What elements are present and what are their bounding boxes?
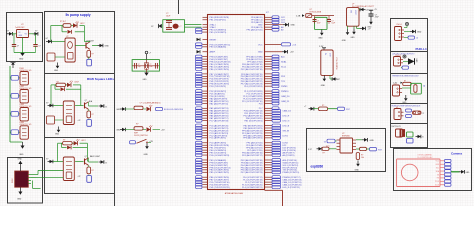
svg-text:GND: GND <box>105 46 110 48</box>
photo chain bus wire <box>9 66 11 142</box>
svg-text:GND: GND <box>17 199 22 201</box>
wire to MCU XTAL2 <box>185 26 202 28</box>
transistor Q1 pump <box>86 40 94 49</box>
ground 1.3V comp <box>321 75 326 86</box>
label LDR PGB4 <box>19 122 32 126</box>
capacitor C5 <box>313 20 321 25</box>
wire motor B <box>31 176 44 178</box>
svg-text:+3?: +3? <box>368 28 371 30</box>
gate box (RGB box) <box>47 116 64 124</box>
svg-text:H?: H? <box>396 107 398 109</box>
svg-text:RGB Square LEDs: RGB Square LEDs <box>87 77 114 81</box>
net flag +3 output <box>360 27 371 31</box>
esp IC U5 <box>337 133 357 153</box>
svg-text:GND: GND <box>54 70 59 72</box>
decoupling cap C4b <box>166 25 172 29</box>
wire chain gnd <box>10 141 23 143</box>
camera gnd diode <box>459 170 470 174</box>
mosfet gate box pump <box>47 53 55 61</box>
title esp8266 <box>311 164 324 168</box>
wire drive (RGB box) <box>53 105 63 107</box>
net oval photo 1 <box>10 76 20 81</box>
ground (RGB box) <box>55 127 60 136</box>
wire base (RGB box) <box>75 105 83 107</box>
svg-text:C? 1-CLAIRE-ARGB(LV): C? 1-CLAIRE-ARGB(LV) <box>140 102 161 105</box>
ground 1117 left <box>342 29 350 42</box>
svg-text:GND: GND <box>342 40 347 42</box>
wire driver to transistor <box>75 45 86 47</box>
wire LED loop (backlight box) <box>58 143 88 161</box>
svg-text:PL0 (ICP4/PCINT4): PL0 (ICP4/PCINT4) <box>244 86 263 88</box>
wire to MCU XTAL1 <box>185 24 202 26</box>
svg-text:C?: C? <box>17 46 19 48</box>
capacitor C1 <box>12 45 19 53</box>
crystal green box <box>132 60 159 72</box>
power +3 tap (RGB box) <box>78 120 81 122</box>
wire vout <box>29 33 35 35</box>
ground arrow down <box>17 187 22 200</box>
power flag (sensor box1) <box>404 22 409 27</box>
svg-text:PF4 (ADC4/TCK): PF4 (ADC4/TCK) <box>246 29 262 32</box>
MCU part number label <box>225 192 244 195</box>
crystal cap Cb <box>155 63 157 69</box>
connector DHT (sensor box5) <box>396 129 406 138</box>
resistor R1 pump <box>60 21 71 27</box>
regulator U1 labels <box>15 24 25 29</box>
svg-text:+3?: +3? <box>78 176 81 178</box>
svg-text:7x05DCWV: 7x05DCWV <box>15 27 25 29</box>
svg-text:GND: GND <box>19 154 24 156</box>
wire pump in <box>52 41 66 43</box>
gnd diode (sensor box1) <box>404 30 422 34</box>
net oval (sensor box1) <box>404 36 418 40</box>
blue vertical text 3 (sensor box3) <box>423 85 426 87</box>
svg-text:C?: C? <box>332 20 334 22</box>
net flag pullup <box>304 106 314 111</box>
LED status1 <box>147 105 153 111</box>
diode output pump <box>98 44 110 48</box>
net flag VIN <box>7 31 13 36</box>
label door switch <box>134 132 148 137</box>
svg-text:LED_R (PCINT21): LED_R (PCINT21) <box>283 187 301 189</box>
LED diode (backlight box) <box>74 139 86 145</box>
svg-text:GND: GND <box>55 134 60 136</box>
power flag 2 (sensor box2) <box>403 55 406 58</box>
wire motor A <box>31 171 38 175</box>
svg-text:+?: +? <box>304 106 306 108</box>
wire output cap <box>35 34 37 45</box>
capacitor C6 <box>327 20 335 25</box>
svg-text:HS: HS <box>437 178 439 180</box>
ground crystal <box>143 73 149 82</box>
section frame: motor driver box <box>8 158 43 204</box>
section frame: camera box <box>394 149 472 191</box>
svg-text:GND: GND <box>144 154 149 156</box>
svg-text:G?: G? <box>46 38 48 40</box>
wire drive (backlight box) <box>53 161 63 163</box>
svg-text:PGB3: PGB3 <box>19 104 24 106</box>
svg-text:G?: G? <box>46 102 48 104</box>
svg-text:R?: R? <box>63 140 65 142</box>
net oval photo 3 <box>10 112 20 117</box>
svg-text:PWM9: PWM9 <box>281 86 288 88</box>
label LDR PGB3 <box>19 104 32 108</box>
svg-text:Q?: Q? <box>85 156 87 158</box>
svg-text:BLUE-LED-CATHODE: BLUE-LED-CATHODE <box>164 108 184 111</box>
driver U2 pump <box>65 36 75 62</box>
esp resistor R4 <box>356 147 367 150</box>
label sensor box5 <box>392 126 402 128</box>
wire 1117 out <box>348 26 361 29</box>
net flag +5V out <box>33 31 38 36</box>
svg-text:PGB1: PGB1 <box>19 68 24 70</box>
svg-text:LDR1: LDR1 <box>283 135 289 137</box>
svg-text:GND: GND <box>291 25 296 27</box>
svg-text:CAM_D0: CAM_D0 <box>281 95 290 98</box>
svg-text:U?: U? <box>66 36 68 38</box>
regulator U1 body <box>17 30 29 38</box>
diode out (RGB box) <box>99 104 108 108</box>
blue capacitor (backlight box) <box>87 175 92 183</box>
svg-text:R?: R? <box>57 81 59 83</box>
label Q? BACKLIGHT <box>90 155 100 158</box>
net flag decoupling <box>151 24 162 28</box>
svg-text:PE1 (TXD0/PDO): PE1 (TXD0/PDO) <box>210 20 227 22</box>
net flag drive (RGB box) <box>46 102 53 107</box>
svg-text:PE3 (OC3A/AIN1): PE3 (OC3A/AIN1) <box>210 46 227 49</box>
section frame: input supply box <box>7 13 43 62</box>
ground label top <box>18 159 23 161</box>
svg-text:GND: GND <box>370 140 375 142</box>
svg-text:Y?: Y? <box>150 64 152 66</box>
section frame: 5v pump supply box <box>45 12 115 74</box>
wire input cap <box>13 34 15 45</box>
svg-text:PE5 (OC3C/INT5): PE5 (OC3C/INT5) <box>210 32 227 34</box>
svg-text:R?: R? <box>322 105 324 107</box>
wire tmp (sensor box3) <box>402 87 411 89</box>
svg-text:PGB2: PGB2 <box>19 86 24 88</box>
svg-text:A9 (PCINT8): A9 (PCINT8) <box>283 154 295 157</box>
svg-text:LED_G: LED_G <box>283 121 290 123</box>
regulator 1117 body <box>347 8 360 27</box>
ground photo chain <box>19 142 24 156</box>
wire LED loop (RGB box) <box>51 85 81 106</box>
thermistor inside (sensor box3) <box>414 85 417 93</box>
switch SW1 <box>130 139 152 144</box>
svg-text:GND: GND <box>258 52 263 54</box>
svg-text:LED?: LED? <box>81 140 86 142</box>
svg-text:GND: GND <box>143 79 148 81</box>
wire collector out (backlight box) <box>89 158 99 162</box>
ground C7 <box>367 19 373 29</box>
crystal Y1 <box>144 60 153 73</box>
svg-text:PH1 (TXD2/PCINT21): PH1 (TXD2/PCINT21) <box>210 187 231 189</box>
diode branch2 (backlight box) <box>67 146 71 150</box>
big gnd diode 2 (sensor box2) <box>403 58 417 64</box>
svg-text:RT9013-33GB: RT9013-33GB <box>310 11 322 13</box>
svg-text:PF3 (ADC3/PCINT1): PF3 (ADC3/PCINT1) <box>243 137 263 140</box>
LDR component PGB1 <box>20 72 28 85</box>
label +3V status2 <box>161 130 165 132</box>
camera pins <box>435 159 451 186</box>
label 1.3V <box>319 46 324 48</box>
svg-text:PB1 (SCK/PCINT1): PB1 (SCK/PCINT1) <box>244 121 262 123</box>
esp resistor R5 vertical <box>356 153 364 160</box>
svg-text:PC1 (A9/PCINT1): PC1 (A9/PCINT1) <box>210 137 227 140</box>
net oval photo 2 <box>10 94 20 99</box>
net flag status1 <box>116 107 125 111</box>
green module box (sensor box3) <box>411 83 422 94</box>
connector TMP (sensor box3) <box>393 84 403 97</box>
svg-text:DOOR_SWITCH: DOOR_SWITCH <box>134 135 148 137</box>
svg-text:PK7 (ADC15/PCINT23): PK7 (ADC15/PCINT23) <box>241 171 263 174</box>
wire LDO <box>312 16 334 20</box>
section frame: DHT sensor box <box>391 124 428 148</box>
svg-text:THERMISTOR-SENSOR-MODULE: THERMISTOR-SENSOR-MODULE <box>392 75 419 77</box>
capacitor C7 black <box>369 9 379 19</box>
svg-text:PHO-1: PHO-1 <box>397 24 403 26</box>
net label 1.2B <box>296 14 305 17</box>
net flag +3 right of 1117 <box>359 8 369 12</box>
camera body <box>397 159 441 187</box>
diode branch2 (RGB box) <box>61 87 65 91</box>
svg-text:RBG?: RBG? <box>12 178 14 183</box>
connector PHO-2 (sensor box2) <box>394 55 404 66</box>
svg-text:CAM_D2: CAM_D2 <box>283 110 292 113</box>
label status LED 2 <box>136 123 138 125</box>
net flag status2 <box>116 128 125 132</box>
component L? 1.3V <box>321 50 337 75</box>
MCU U4 ref label <box>266 12 270 14</box>
wire collector <box>84 42 97 46</box>
svg-text:C?: C? <box>138 64 140 66</box>
svg-text:CAM_D1: CAM_D1 <box>281 100 290 103</box>
svg-text:22p: 22p <box>138 66 141 68</box>
svg-text:VS: VS <box>437 174 439 176</box>
wire stub top center <box>178 0 180 14</box>
gnd flag DHT (sensor box5) <box>416 135 425 139</box>
resistor status1 <box>125 106 146 109</box>
resistor status2 <box>125 127 146 130</box>
MCU U4 left pins and labels <box>196 17 231 189</box>
svg-text:G?: G? <box>151 26 153 28</box>
svg-text:PHO-L4: PHO-L4 <box>415 47 426 51</box>
svg-text:G?: G? <box>7 31 9 33</box>
wire pump loop <box>51 26 85 42</box>
svg-text:SCL1: SCL1 <box>281 66 287 68</box>
wire motor C <box>33 181 41 189</box>
MCU U4 body <box>208 15 265 190</box>
resistor pullup R? <box>313 105 328 111</box>
svg-text:SDA1: SDA1 <box>281 60 287 63</box>
svg-text:T?: T? <box>395 84 397 86</box>
svg-text:GND: GND <box>116 109 121 111</box>
wire vin <box>12 33 17 35</box>
dark IC U3 <box>12 171 28 187</box>
section frame: sensor box 3 <box>391 74 428 104</box>
section frame: backlight LED box <box>45 138 115 194</box>
MCU bottom right wire <box>265 190 283 206</box>
svg-text:SCL: SCL <box>436 167 439 169</box>
label LDR PGB1 <box>19 68 32 72</box>
svg-text:C?: C? <box>39 46 41 48</box>
svg-text:R?: R? <box>92 54 94 56</box>
emitter resistor (RGB box) <box>87 109 94 118</box>
section frame: PHO-L4 box <box>391 19 428 52</box>
svg-text:BACK LIGHT: BACK LIGHT <box>90 155 100 158</box>
svg-text:+3?: +3? <box>78 120 81 122</box>
svg-text:47uF: 47uF <box>375 17 379 19</box>
svg-text:10uF: 10uF <box>332 22 336 24</box>
svg-text:LED_R: LED_R <box>283 116 290 118</box>
svg-text:R?: R? <box>92 114 94 116</box>
svg-text:5v pump supply: 5v pump supply <box>65 13 90 17</box>
net oval photo 4 <box>10 130 20 135</box>
wire from motor box 1 <box>38 170 63 172</box>
title PHO-L4 <box>415 47 426 51</box>
driver IC (RGB box) <box>63 101 74 125</box>
svg-text:PHO-2: PHO-2 <box>396 55 401 57</box>
svg-text:PL4 (OC5B/PCINT21): PL4 (OC5B/PCINT21) <box>242 187 263 189</box>
antenna flag <box>11 62 16 68</box>
emitter resistor (backlight box) <box>87 165 94 174</box>
svg-text:GND: GND <box>355 169 360 171</box>
svg-text:VOUT: VOUT <box>354 10 356 15</box>
section frame right border continuation <box>114 194 116 207</box>
svg-text:Q?: Q? <box>85 100 87 102</box>
resistor series (backlight box) <box>63 140 73 145</box>
LDR component PGB2 <box>20 90 28 103</box>
svg-text:PB6 (OC1B/PCINT6): PB6 (OC1B/PCINT6) <box>210 69 230 71</box>
MCU U4 right pins and labels <box>241 16 302 189</box>
fuse F1 <box>306 14 312 18</box>
svg-text:PA2 (AD2/PCINT11): PA2 (AD2/PCINT11) <box>210 102 229 105</box>
resistor dumbbell (sensor box4) <box>413 111 422 114</box>
net flag pump input <box>46 38 52 43</box>
driver IC (backlight box) <box>63 157 74 181</box>
esp RX label <box>326 146 330 148</box>
esp TX oval <box>323 139 336 143</box>
esp ground <box>355 161 360 172</box>
section frame: RGB square LEDs box <box>45 74 115 138</box>
label sensor box4 <box>392 106 422 108</box>
net oval status1 <box>156 107 184 111</box>
svg-text:1.2B: 1.2B <box>296 16 301 18</box>
svg-text:GND: GND <box>19 59 24 61</box>
esp RST oval <box>367 148 383 152</box>
svg-text:GND: GND <box>417 32 422 34</box>
title Camera <box>451 151 462 155</box>
connector HUM (sensor box4) <box>394 107 404 120</box>
svg-text:ATMEGA2560-16AU: ATMEGA2560-16AU <box>225 192 244 195</box>
esp 3.3 input <box>308 147 322 151</box>
wire collector out (RGB box) <box>89 102 99 106</box>
label sensor box3 <box>392 75 419 77</box>
svg-text:PWM9 (PCINT15): PWM9 (PCINT15) <box>283 172 300 174</box>
net flag drive (backlight box) <box>46 158 53 163</box>
svg-text:L4: L4 <box>416 38 418 40</box>
label sensor box2 <box>392 53 415 55</box>
svg-text:PB5 (OC1A/PCINT5): PB5 (OC1A/PCINT5) <box>210 171 230 174</box>
transistor driver (RGB box) <box>85 100 89 109</box>
svg-text:PD3 (TXD1/INT3): PD3 (TXD1/INT3) <box>210 86 227 88</box>
LDR component PGB3 <box>20 108 28 121</box>
svg-text:Camera: Camera <box>451 151 462 155</box>
power +3 tap (backlight box) <box>78 176 81 178</box>
power flag crystal2 <box>145 51 151 59</box>
svg-text:LED?: LED? <box>75 82 80 84</box>
resistor thermistor (sensor box3) <box>403 81 412 86</box>
title 5v pump supply <box>65 13 90 17</box>
LDR component PGB4 <box>20 126 28 139</box>
gnd sensor3 (sensor box3) <box>402 95 407 104</box>
svg-text:LED?: LED? <box>80 23 85 25</box>
svg-text:PWM10: PWM10 <box>281 91 289 93</box>
net oval pullup <box>338 107 351 111</box>
esp gnd diode <box>356 138 374 142</box>
svg-text:+?: +? <box>179 26 181 28</box>
capacitor C3 pump blue <box>87 57 92 66</box>
crystal cap Ca <box>135 63 141 69</box>
svg-text:AREF: AREF <box>210 51 216 54</box>
svg-text:A0: A0 <box>423 85 426 87</box>
svg-text:+3?: +3? <box>366 10 369 12</box>
ground switch <box>144 143 149 156</box>
svg-text:esp8266: esp8266 <box>311 164 324 168</box>
svg-text:PC7 (A15/PCINT18): PC7 (A15/PCINT18) <box>210 120 229 123</box>
power stub 1.3V <box>322 48 326 50</box>
net label 1.2V (sensor box3) <box>393 82 403 85</box>
wire pullup <box>328 108 338 110</box>
decoupling green box <box>163 20 185 32</box>
section title (RGB box) <box>87 77 114 81</box>
connector PHO-1 (sensor box1) <box>395 24 405 41</box>
svg-text:10uF: 10uF <box>317 22 321 24</box>
svg-text:GND: GND <box>18 159 23 161</box>
svg-text:L? DL-CONSTRU: L? DL-CONSTRU <box>335 57 337 71</box>
camera gnd wire <box>451 171 460 173</box>
label status LED 1 <box>140 102 161 105</box>
diode out (backlight box) <box>99 160 108 164</box>
camera label <box>418 154 434 160</box>
label LDR PGB2 <box>19 86 32 90</box>
transistor driver (backlight box) <box>85 156 89 165</box>
svg-text:G?: G? <box>35 31 37 33</box>
svg-text:PG5 (OC0B/PCINT8): PG5 (OC0B/PCINT8) <box>210 155 230 157</box>
svg-text:GND: GND <box>116 130 121 132</box>
svg-text:LED_B: LED_B <box>283 125 290 127</box>
capacitor C2 <box>33 45 40 53</box>
LED status2 <box>147 125 161 131</box>
net oval 2 (sensor box2) <box>401 66 409 69</box>
wire from motor box 2 <box>44 176 63 178</box>
svg-text:C?: C? <box>317 20 319 22</box>
svg-text:GND: GND <box>351 37 356 39</box>
wire reg gnd <box>22 38 24 53</box>
blue capacitor (RGB box) <box>87 119 92 127</box>
svg-text:G?: G? <box>46 158 48 160</box>
net flag +3 1.3V <box>330 75 340 81</box>
crystal bus wire <box>132 65 159 67</box>
section frame: esp8266 box <box>307 129 386 172</box>
blue pad DHT (sensor box5) <box>407 139 414 144</box>
svg-text:GND: GND <box>318 38 323 40</box>
svg-text:R?: R? <box>92 170 94 172</box>
svg-text:R?: R? <box>323 153 325 155</box>
wire gnd bus box A <box>14 52 36 54</box>
LED diode (RGB box) <box>67 81 79 87</box>
svg-text:GND: GND <box>321 85 326 87</box>
